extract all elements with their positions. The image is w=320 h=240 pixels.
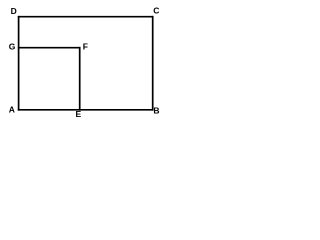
wire GF (top edge of inner square) bbox=[18, 47, 81, 49]
svg-text:B: B bbox=[153, 106, 159, 116]
wire AB (bottom edge of rectangle) bbox=[18, 109, 154, 111]
svg-text:G: G bbox=[9, 42, 16, 52]
wire CB (right edge of rectangle) bbox=[152, 16, 154, 111]
svg-text:A: A bbox=[9, 105, 15, 115]
svg-text:C: C bbox=[153, 6, 159, 16]
svg-text:F: F bbox=[83, 41, 88, 51]
svg-text:E: E bbox=[76, 109, 82, 119]
wire DA (left edge of rectangle) bbox=[18, 16, 20, 111]
svg-text:D: D bbox=[11, 6, 17, 16]
wire FE (right edge of inner square) bbox=[79, 47, 81, 111]
wire DC (top edge of rectangle) bbox=[18, 16, 154, 18]
